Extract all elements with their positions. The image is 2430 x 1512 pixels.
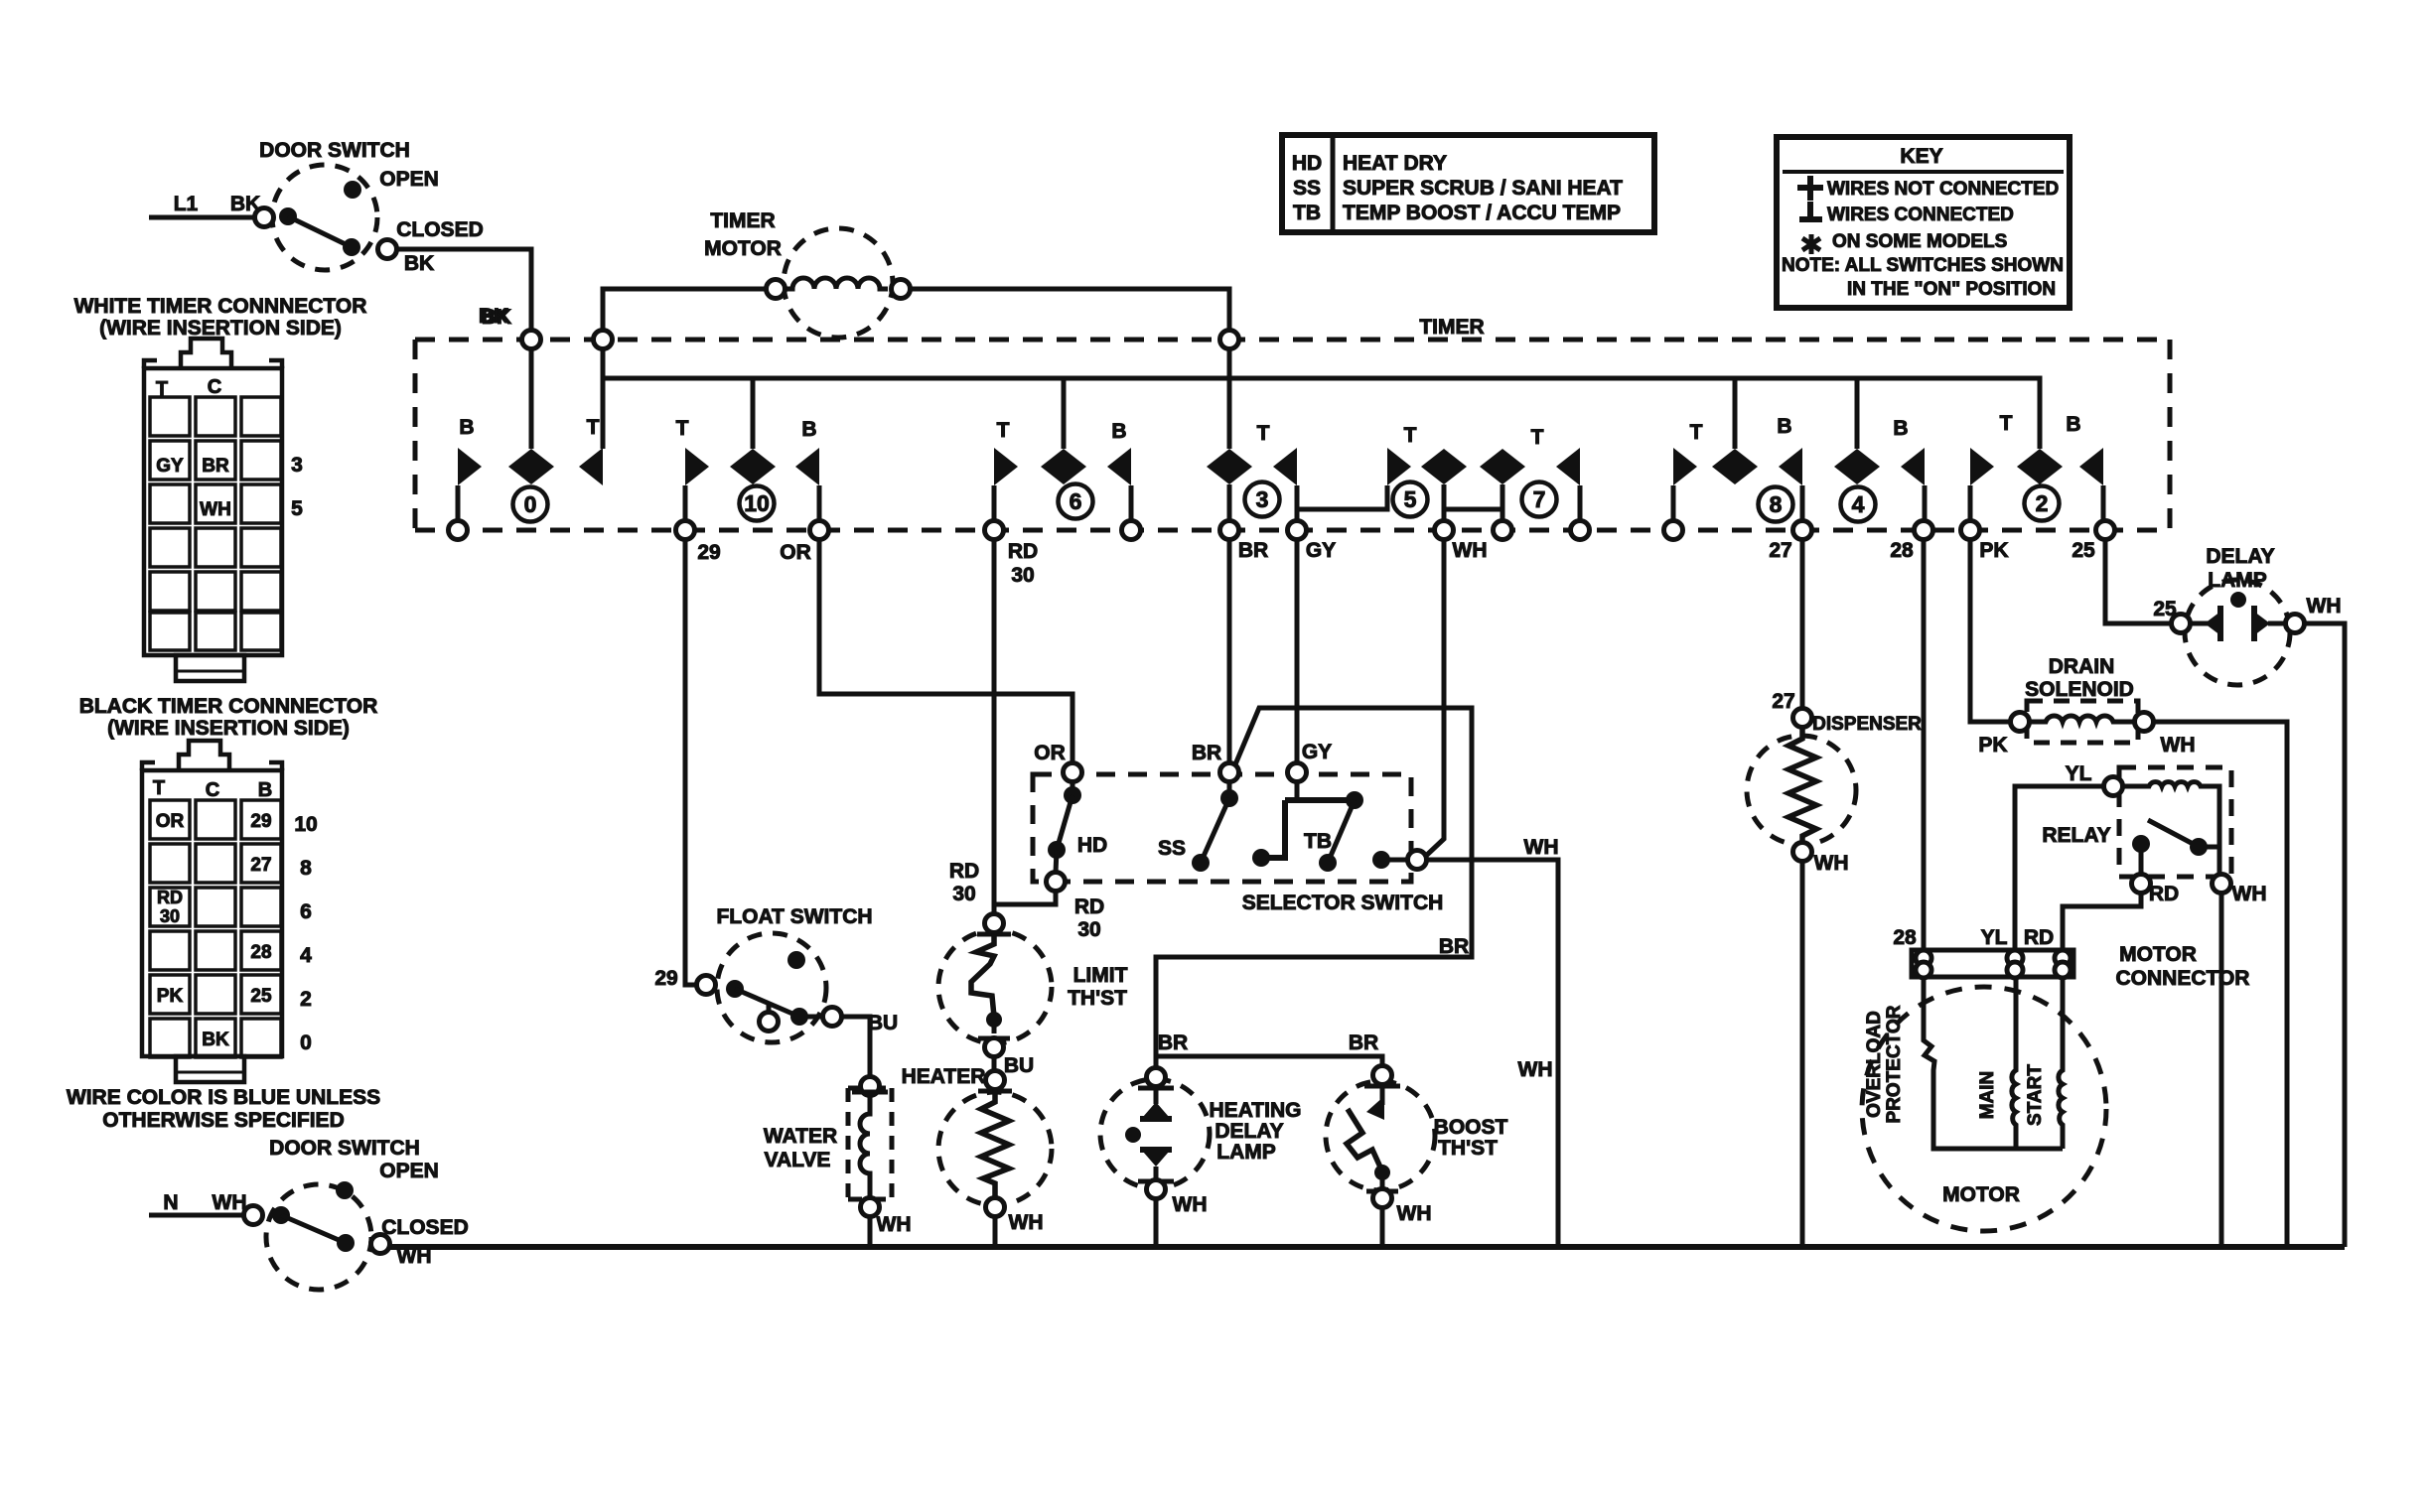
svg-text:RD: RD <box>2024 926 2054 949</box>
label TIMER <box>1419 316 1484 339</box>
svg-text:WH: WH <box>1173 1193 1208 1216</box>
svg-text:L1: L1 <box>174 193 199 215</box>
svg-text:5: 5 <box>1404 486 1417 512</box>
svg-text:LAMP: LAMP <box>2208 569 2267 592</box>
wire 28 from timer to motor connector <box>1922 539 1927 950</box>
wire limit thermostat to heater <box>992 1056 997 1071</box>
selector switch dashed box <box>1033 774 1411 882</box>
timer switch 0 contact T triangle <box>579 448 603 485</box>
label MOTOR CONNECTOR <box>2116 943 2250 990</box>
heater dashed body <box>938 1092 1052 1205</box>
white connector pin grid <box>150 397 281 650</box>
timer terminal 25 <box>2072 521 2114 563</box>
timer terminal PK <box>1961 521 2009 563</box>
svg-text:T: T <box>1257 422 1270 445</box>
wire 27 from timer to dispenser <box>1772 539 1802 713</box>
svg-text:25: 25 <box>2072 539 2095 562</box>
svg-text:LIMIT: LIMIT <box>1073 964 1128 987</box>
svg-text:B: B <box>801 418 816 441</box>
svg-text:28: 28 <box>1890 539 1914 562</box>
heater resistor element <box>981 1090 1009 1198</box>
timer switch 0 circled number <box>513 487 548 522</box>
svg-text:WH: WH <box>2161 734 2196 756</box>
timer terminal OR <box>780 521 828 565</box>
label DELAY LAMP <box>2206 545 2274 592</box>
wire dispenser to neutral bus <box>1800 861 1805 1247</box>
neutral bus wire WH <box>389 1244 2345 1250</box>
net label L1 <box>174 193 199 215</box>
svg-text:BR: BR <box>1158 1031 1188 1054</box>
svg-text:BR: BR <box>202 456 229 477</box>
svg-text:T: T <box>1690 421 1703 444</box>
wire OR from timer to selector switch <box>819 539 1072 763</box>
svg-text:OTHERWISE SPECIFIED: OTHERWISE SPECIFIED <box>102 1109 344 1132</box>
svg-text:5: 5 <box>291 497 303 520</box>
svg-text:OR: OR <box>1034 742 1066 764</box>
svg-text:YL: YL <box>1981 926 2008 949</box>
timer top edge terminal BK <box>522 331 541 349</box>
svg-text:OR: OR <box>780 541 811 564</box>
label T of switch 8 <box>1690 421 1703 444</box>
wire WH from N to lower door switch <box>149 1191 247 1215</box>
black connector row number 6 <box>300 900 312 923</box>
svg-text:OPEN: OPEN <box>379 1160 439 1182</box>
heater top terminal <box>978 1071 1012 1092</box>
wire PK from timer to drain solenoid <box>1970 539 2011 756</box>
svg-text:B: B <box>1777 415 1791 438</box>
timer switch 0 terminal (B) <box>449 521 468 540</box>
wire BK from door switch S1 to timer switch 0 <box>396 249 531 449</box>
wire BR selector to heating delay lamp and boost thermostat <box>1156 708 1472 1068</box>
svg-text:RD: RD <box>1008 540 1038 563</box>
svg-text:T: T <box>2000 412 2013 435</box>
label DOOR SWITCH (upper) <box>259 139 410 162</box>
svg-text:WH: WH <box>200 499 231 520</box>
label START <box>2025 1064 2046 1126</box>
svg-text:SUPER SCRUB / SANI HEAT: SUPER SCRUB / SANI HEAT <box>1343 177 1623 200</box>
limit thermostat top terminal <box>977 914 1011 935</box>
svg-text:HEAT DRY: HEAT DRY <box>1343 152 1447 175</box>
timer terminal BR <box>1220 521 1269 563</box>
svg-text:TB: TB <box>1304 830 1332 853</box>
svg-text:BK: BK <box>479 305 508 328</box>
black connector header B <box>258 779 272 801</box>
timer switch 8 cam diamond <box>1712 449 1758 484</box>
svg-text:RD: RD <box>1074 895 1104 918</box>
timer switch 4 contact B triangle <box>1901 448 1925 521</box>
float switch lower open contact <box>760 1003 779 1031</box>
timer switch 7 cam diamond <box>1480 449 1525 521</box>
key symbol wires not connected <box>1797 176 2059 201</box>
legend row SS SUPER SCRUB <box>1293 177 1623 200</box>
timer top edge terminal (motor left) <box>594 331 613 349</box>
timer switch 2 cam diamond <box>2017 449 2063 484</box>
wire delay lamp WH to neutral bus <box>2304 623 2345 1247</box>
timer terminal (switch 7 diamond, unlabeled) <box>1494 521 1512 540</box>
label T of switch 3 <box>1257 422 1270 445</box>
svg-text:GY: GY <box>156 456 184 477</box>
svg-text:T: T <box>997 419 1010 442</box>
label SELECTOR SWITCH <box>1242 892 1444 914</box>
svg-text:WH: WH <box>1518 1058 1553 1081</box>
relay dashed box <box>2119 767 2231 877</box>
relay coil <box>2122 782 2219 840</box>
label MAIN <box>1977 1071 1998 1120</box>
door switch S2 (lower) dashed body <box>266 1184 371 1290</box>
svg-text:HEATER: HEATER <box>902 1065 986 1088</box>
timer switch 0 cam diamond <box>508 449 554 484</box>
white connector row number 5 <box>291 497 303 520</box>
water valve coil <box>860 1096 870 1198</box>
label B of switch 4 <box>1893 417 1908 440</box>
water valve bottom terminal WH <box>861 1198 912 1237</box>
motor dashed body <box>1862 987 2106 1231</box>
svg-text:BR: BR <box>1439 935 1469 958</box>
svg-text:TH'ST: TH'ST <box>1438 1137 1498 1160</box>
svg-text:WIRES NOT CONNECTED: WIRES NOT CONNECTED <box>1827 179 2059 200</box>
white connector cell BR <box>202 456 229 477</box>
float switch upper contact dot <box>787 951 805 969</box>
black connector cell 25 <box>250 986 272 1007</box>
svg-text:(WIRE INSERTION SIDE): (WIRE INSERTION SIDE) <box>107 717 350 740</box>
label MOTOR <box>1942 1183 2020 1206</box>
timer switch 4 circled number <box>1841 487 1876 522</box>
white connector header C <box>208 376 221 398</box>
svg-text:29: 29 <box>697 541 720 564</box>
wire BK from L1 to upper door switch <box>149 193 260 217</box>
svg-text:30: 30 <box>1077 918 1100 941</box>
selector terminal GY <box>1288 741 1333 782</box>
svg-text:B: B <box>2066 413 2080 436</box>
limit thermostat dashed body <box>938 930 1052 1043</box>
timer switch 6 circled number <box>1059 484 1093 519</box>
svg-text:DELAY: DELAY <box>1215 1120 1283 1143</box>
label T of switch 7 <box>1531 426 1544 449</box>
T bus tap to switch 8 <box>1733 378 1738 449</box>
motor connector box <box>1912 950 2073 977</box>
motor overload protector lead (28) <box>1924 977 2063 1149</box>
svg-text:29: 29 <box>654 967 677 990</box>
black connector header T <box>153 777 165 799</box>
door switch S2 input terminal <box>244 1206 263 1225</box>
wire boost thermostat to neutral bus <box>1380 1207 1385 1247</box>
timer switch 3 circled number <box>1245 482 1280 517</box>
timer terminal (switch 7 contact, unlabeled) <box>1571 521 1590 540</box>
label T of switch 0 <box>587 416 600 439</box>
svg-text:WH: WH <box>1009 1211 1044 1234</box>
label WATER VALVE <box>764 1125 837 1171</box>
svg-text:SS: SS <box>1293 177 1321 200</box>
dispenser top terminal <box>1793 709 1923 736</box>
black connector cell 28 <box>250 942 271 963</box>
label T of switch 6 <box>997 419 1010 442</box>
svg-text:WH: WH <box>2232 883 2267 905</box>
wire RD 30 branch to selector switch HD <box>994 891 1104 941</box>
svg-text:WIRE COLOR IS BLUE UNLESS: WIRE COLOR IS BLUE UNLESS <box>67 1086 380 1109</box>
timer switch 10 cam diamond <box>730 449 776 484</box>
heating delay lamp bottom terminal WH <box>1138 1180 1208 1217</box>
timer motor body (dashed) <box>784 228 893 338</box>
svg-text:SS: SS <box>1158 837 1186 860</box>
label BK at timer top terminal <box>479 305 508 328</box>
heater bottom terminal WH <box>986 1198 1044 1235</box>
svg-text:30: 30 <box>1011 564 1034 587</box>
svg-text:(WIRE INSERTION SIDE): (WIRE INSERTION SIDE) <box>99 317 342 340</box>
white connector cell GY <box>156 456 184 477</box>
selector TB switch <box>1252 781 1363 872</box>
dispenser bottom terminal WH <box>1793 843 1849 876</box>
key symbol wires connected <box>1799 202 2014 225</box>
label B of switch 8 <box>1777 415 1791 438</box>
svg-text:WIRES CONNECTED: WIRES CONNECTED <box>1827 205 2014 225</box>
delay lamp right terminal WH <box>2286 595 2342 633</box>
black connector row number 4 <box>300 944 312 967</box>
black connector cell OR <box>156 811 185 832</box>
label B of switch 0 <box>459 416 474 439</box>
svg-text:CONNECTOR: CONNECTOR <box>2116 967 2250 990</box>
svg-text:MAIN: MAIN <box>1977 1071 1998 1120</box>
svg-text:2: 2 <box>300 988 312 1011</box>
heating delay lamp element <box>1125 1087 1172 1178</box>
svg-text:DISPENSER: DISPENSER <box>1812 714 1922 735</box>
delay lamp dashed body <box>2185 580 2290 685</box>
label LIMIT TH'ST <box>1068 964 1127 1010</box>
float switch output terminal BU <box>799 1008 898 1035</box>
svg-text:T: T <box>1404 424 1417 447</box>
svg-text:PK: PK <box>1979 539 2008 562</box>
motor connector pin 28 <box>1893 926 1931 978</box>
label FLOAT SWITCH <box>716 905 872 928</box>
door switch S2 OPEN contact <box>336 1160 439 1199</box>
timer switch 2 circled number <box>2025 486 2060 521</box>
boost thermostat dashed body <box>1326 1081 1435 1190</box>
svg-text:T: T <box>676 417 689 440</box>
relay moving contact <box>2132 835 2150 873</box>
svg-text:DRAIN: DRAIN <box>2049 655 2115 678</box>
delay lamp element <box>2190 592 2286 641</box>
svg-text:30: 30 <box>952 883 975 905</box>
svg-text:BK: BK <box>202 1030 229 1050</box>
T bus tap to switch 6 <box>1062 378 1067 449</box>
wire heating delay lamp to neutral bus <box>1154 1198 1159 1247</box>
label T of switch 10 <box>676 417 689 440</box>
svg-text:C: C <box>208 376 221 398</box>
svg-text:4: 4 <box>1852 491 1865 517</box>
wire WH from timer switch 5 to selector <box>1427 539 1444 855</box>
svg-text:30: 30 <box>160 906 180 926</box>
timer switch 10 circled number <box>740 486 775 521</box>
selector HD output terminal <box>1047 873 1066 892</box>
net label N <box>163 1191 178 1214</box>
svg-text:28: 28 <box>250 942 271 963</box>
black connector row number 10 <box>294 813 317 836</box>
wire YL motor connector to relay coil <box>2015 762 2104 950</box>
svg-text:KEY: KEY <box>1900 145 1942 168</box>
svg-text:28: 28 <box>1893 926 1917 949</box>
svg-text:4: 4 <box>300 944 312 967</box>
black connector row number 2 <box>300 988 312 1011</box>
black connector cell BK <box>202 1030 229 1050</box>
timer switch 6 contact T triangle <box>994 448 1018 521</box>
motor connector pin RD <box>2024 926 2071 978</box>
relay coil terminal YL <box>2104 777 2123 796</box>
black connector header C <box>206 779 219 801</box>
svg-text:BOOST: BOOST <box>1434 1116 1508 1139</box>
relay switch blade <box>2148 820 2219 875</box>
svg-text:B: B <box>1111 420 1126 443</box>
timer switch 8 contact B triangle <box>1779 448 1802 521</box>
svg-text:25: 25 <box>250 986 272 1007</box>
timer switch 2 contact T triangle <box>1970 448 1994 521</box>
svg-text:29: 29 <box>250 811 271 832</box>
wire WH selector to neutral bus <box>1426 836 1559 1247</box>
svg-text:27: 27 <box>250 855 271 876</box>
selector WH output terminal <box>1408 851 1427 870</box>
timer terminal 28 <box>1890 521 1932 563</box>
svg-text:NOTE: ALL SWITCHES SHOWN: NOTE: ALL SWITCHES SHOWN <box>1782 255 2064 276</box>
wire water valve to neutral bus <box>868 1216 873 1247</box>
timer terminal (switch 8 T, unlabeled) <box>1664 521 1683 540</box>
black connector pin grid <box>150 800 281 1057</box>
door switch S1 OPEN contact <box>344 168 439 199</box>
timer switch 2 contact B triangle <box>2079 448 2103 521</box>
wire drain solenoid WH to neutral bus <box>2153 722 2287 1247</box>
svg-text:RD: RD <box>157 888 183 907</box>
svg-text:WATER: WATER <box>764 1125 837 1148</box>
svg-text:C: C <box>206 779 219 801</box>
door switch S1 blade <box>279 207 360 256</box>
timer top edge terminal (motor right) <box>1220 331 1239 349</box>
svg-text:OPEN: OPEN <box>379 168 439 191</box>
svg-text:PK: PK <box>157 986 184 1007</box>
legend row TB TEMP BOOST <box>1293 202 1621 224</box>
timer switch 5 circled number <box>1393 482 1428 517</box>
motor start winding <box>2059 977 2063 1149</box>
label DOOR SWITCH (lower) <box>269 1137 420 1160</box>
timer switch 6 cam diamond <box>1041 449 1086 484</box>
svg-text:B: B <box>1893 417 1908 440</box>
svg-text:HEATING: HEATING <box>1210 1099 1302 1122</box>
white connector cell WH <box>200 499 231 520</box>
svg-text:0: 0 <box>300 1031 312 1054</box>
wire GY from timer to selector switch <box>1295 539 1300 763</box>
wire heater to neutral bus <box>993 1216 998 1247</box>
boost thermostat top terminal BR <box>1364 1066 1400 1087</box>
svg-text:3: 3 <box>291 454 303 477</box>
svg-text:WH: WH <box>1453 539 1488 562</box>
black connector row number 8 <box>300 857 312 880</box>
note WIRE COLOR IS BLUE <box>67 1086 380 1132</box>
svg-text:VALVE: VALVE <box>765 1149 831 1171</box>
relay terminal WH <box>2213 875 2267 906</box>
label DRAIN SOLENOID <box>2025 655 2134 701</box>
timer switch 8 contact T triangle <box>1673 448 1697 521</box>
motor connector pin YL <box>1981 926 2023 978</box>
svg-text:DELAY: DELAY <box>2206 545 2274 568</box>
float switch dashed body <box>717 933 826 1042</box>
svg-text:TH'ST: TH'ST <box>1068 987 1127 1010</box>
svg-text:T: T <box>153 777 165 799</box>
label B of switch 2 <box>2066 413 2080 436</box>
svg-text:10: 10 <box>744 490 770 516</box>
svg-text:2: 2 <box>2036 490 2049 516</box>
black connector cell RD 30 <box>157 888 183 926</box>
svg-text:WH: WH <box>213 1191 247 1214</box>
timer switch 7 contact triangle <box>1556 448 1580 521</box>
label B of switch 10 <box>801 418 816 441</box>
svg-text:TIMER: TIMER <box>1419 316 1484 339</box>
key box frame <box>1777 137 2070 308</box>
svg-text:BR: BR <box>1192 742 1221 764</box>
svg-text:RD: RD <box>949 860 979 883</box>
black connector cell 27 <box>250 855 271 876</box>
svg-text:6: 6 <box>1070 488 1082 514</box>
timer terminal RD 30 <box>985 521 1039 588</box>
timer enclosure (dashed box) <box>415 340 2170 530</box>
relay terminal RD <box>2132 875 2180 906</box>
svg-text:WH: WH <box>877 1213 912 1236</box>
wire link switch 5 to switch 7 <box>1444 507 1502 512</box>
svg-text:OVERLOAD: OVERLOAD <box>1864 1011 1885 1118</box>
timer switch 6 contact B triangle <box>1107 448 1131 521</box>
svg-text:27: 27 <box>1769 539 1791 562</box>
svg-text:HD: HD <box>1077 834 1107 857</box>
timer terminal (switch 6 B, unlabeled) <box>1122 521 1141 540</box>
svg-text:FLOAT SWITCH: FLOAT SWITCH <box>716 905 872 928</box>
T bus tap to switch 4 <box>1855 378 1860 449</box>
svg-text:BR: BR <box>1238 539 1268 562</box>
label HEATING DELAY LAMP <box>1210 1099 1302 1164</box>
label RELAY <box>2042 824 2110 847</box>
svg-text:CLOSED: CLOSED <box>396 218 484 241</box>
svg-text:B: B <box>258 779 272 801</box>
door switch S1 input terminal <box>255 208 274 227</box>
timer switch 3 cam diamond <box>1207 449 1252 521</box>
svg-text:ON SOME MODELS: ON SOME MODELS <box>1832 231 2007 252</box>
svg-text:WH: WH <box>397 1245 432 1268</box>
svg-text:TB: TB <box>1293 202 1321 224</box>
svg-text:BLACK TIMER CONNNECTOR: BLACK TIMER CONNNECTOR <box>79 695 378 718</box>
wire BR from timer to selector switch <box>1227 539 1232 763</box>
timer terminal 27 <box>1769 521 1811 563</box>
svg-text:CLOSED: CLOSED <box>381 1216 469 1239</box>
svg-text:PROTECTOR: PROTECTOR <box>1884 1005 1905 1123</box>
water valve dashed body <box>848 1088 892 1199</box>
svg-text:SOLENOID: SOLENOID <box>2025 678 2134 701</box>
label BOOST TH'ST <box>1434 1116 1508 1160</box>
wire timer motor left lead to T-bus <box>603 289 767 449</box>
boost thermostat bottom terminal WH <box>1366 1189 1432 1226</box>
svg-text:8: 8 <box>1770 491 1783 517</box>
label T of switch 5 <box>1404 424 1417 447</box>
label B of switch 6 <box>1111 420 1126 443</box>
svg-text:10: 10 <box>294 813 317 836</box>
legend row HD HEAT DRY <box>1292 152 1447 175</box>
T bus tap to switch 10 <box>751 378 756 449</box>
label HEATER <box>902 1065 986 1088</box>
svg-text:BR: BR <box>1349 1031 1378 1054</box>
timer switch 5 contact T triangle <box>1387 448 1411 485</box>
timer switch 4 cam diamond <box>1834 449 1880 484</box>
timer terminal 29 <box>676 521 721 565</box>
drain solenoid right terminal WH <box>2135 713 2196 757</box>
black connector row number 0 <box>300 1031 312 1054</box>
svg-text:B: B <box>459 416 474 439</box>
key symbol on some models <box>1802 231 2007 254</box>
black connector cell PK <box>157 986 184 1007</box>
svg-text:3: 3 <box>1256 486 1269 512</box>
svg-text:LAMP: LAMP <box>1216 1141 1276 1164</box>
